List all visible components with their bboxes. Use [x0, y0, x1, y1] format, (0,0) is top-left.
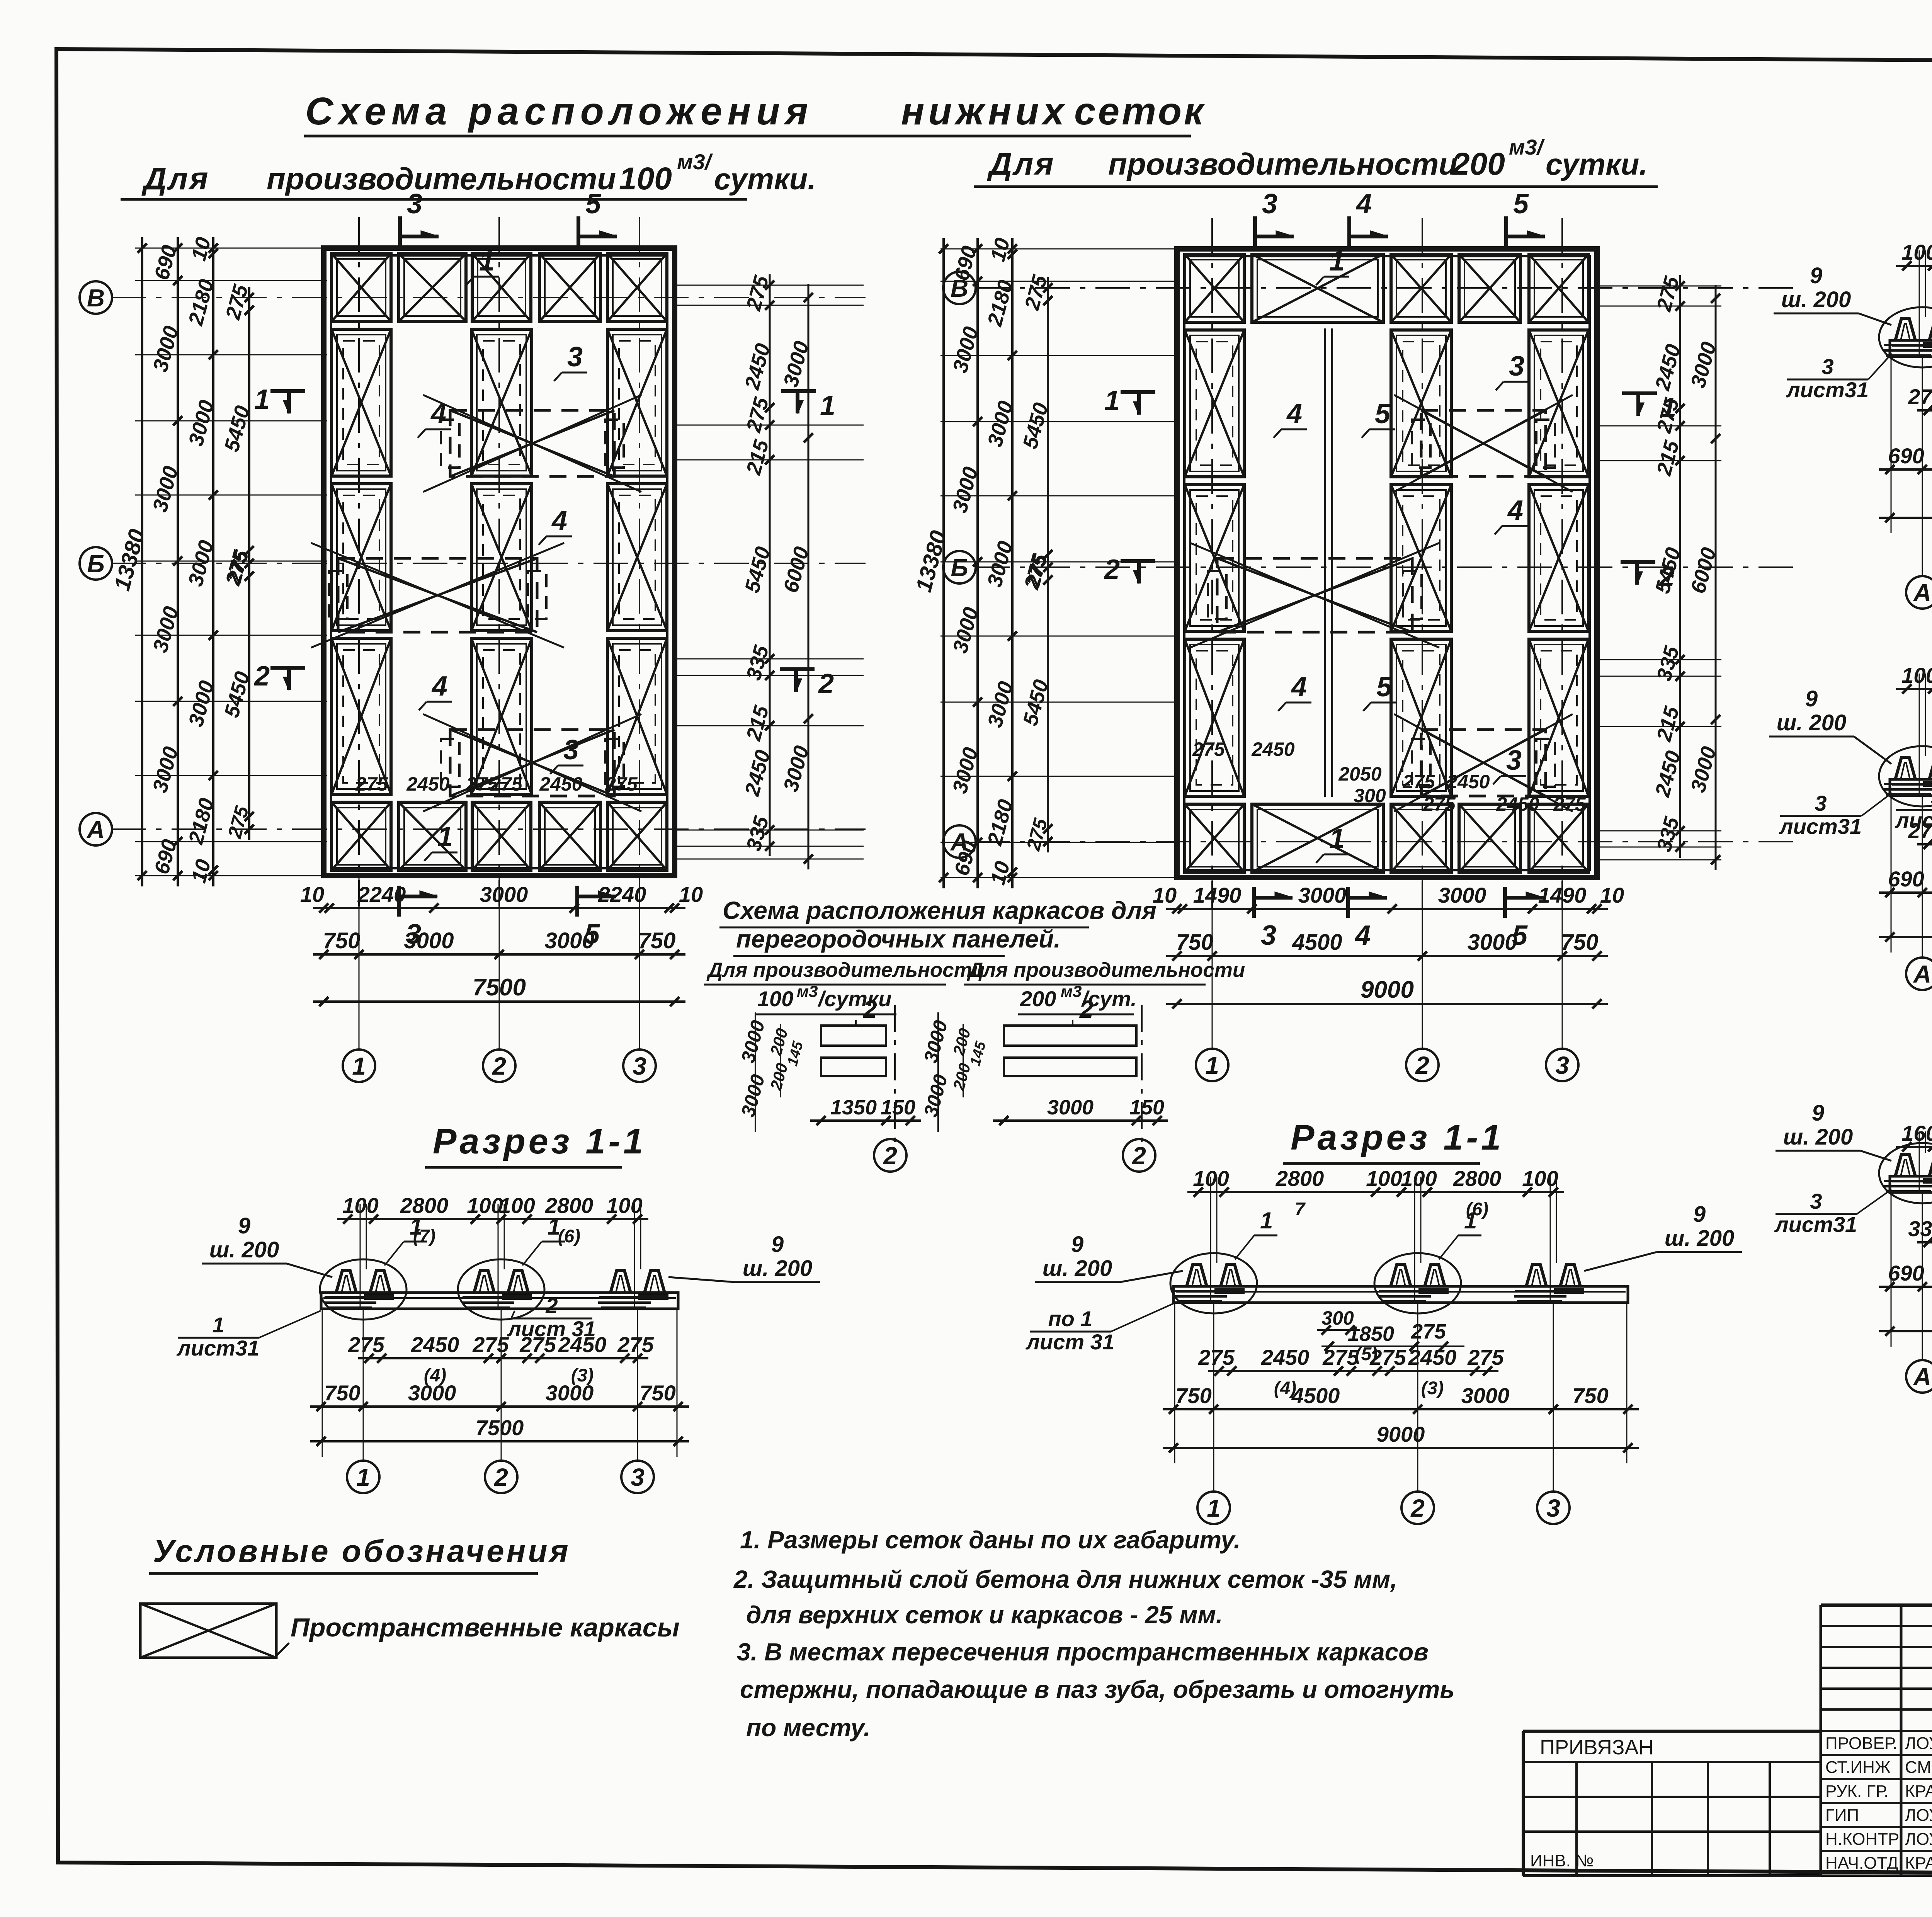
svg-text:10: 10 — [300, 882, 324, 907]
svg-text:100: 100 — [1901, 240, 1932, 264]
svg-text:А: А — [1913, 960, 1931, 988]
svg-text:1: 1 — [1329, 246, 1345, 277]
svg-text:2: 2 — [883, 1142, 897, 1170]
svg-text:9: 9 — [1805, 686, 1818, 711]
svg-text:производительности: производительности — [1108, 147, 1458, 181]
svg-text:2450: 2450 — [406, 773, 449, 795]
svg-text:Схема расположения: Схема расположения — [305, 90, 813, 133]
svg-text:7: 7 — [1295, 1199, 1306, 1220]
svg-text:3000: 3000 — [408, 1381, 456, 1405]
svg-text:4500: 4500 — [1291, 1383, 1340, 1408]
svg-text:275: 275 — [348, 1332, 384, 1357]
svg-text:1: 1 — [437, 822, 453, 852]
svg-text:1350: 1350 — [830, 1096, 877, 1119]
svg-text:ПРИВЯЗАН: ПРИВЯЗАН — [1540, 1736, 1654, 1759]
svg-text:лист31: лист31 — [1786, 378, 1869, 402]
svg-text:Для производительности: Для производительности — [967, 959, 1245, 981]
svg-text:1: 1 — [254, 384, 270, 415]
svg-text:1: 1 — [1464, 1208, 1477, 1233]
svg-text:160: 160 — [1901, 1121, 1932, 1145]
svg-text:4: 4 — [1355, 189, 1372, 219]
svg-text:275: 275 — [1402, 771, 1435, 793]
svg-text:3000: 3000 — [480, 882, 528, 907]
svg-text:1: 1 — [352, 1052, 366, 1080]
svg-text:лист31: лист31 — [176, 1336, 259, 1360]
svg-text:ш. 200: ш. 200 — [743, 1256, 813, 1281]
svg-text:1: 1 — [1260, 1208, 1273, 1233]
svg-text:4: 4 — [1354, 920, 1371, 951]
svg-text:ш. 200: ш. 200 — [1783, 1124, 1853, 1150]
svg-text:4: 4 — [430, 398, 446, 429]
svg-text:4500: 4500 — [1292, 930, 1342, 955]
svg-text:ПРОВЕР.: ПРОВЕР. — [1825, 1734, 1897, 1753]
svg-text:Пространственные каркасы: Пространственные каркасы — [291, 1613, 680, 1642]
svg-text:м3/: м3/ — [677, 150, 713, 174]
svg-text:100: 100 — [1901, 663, 1932, 687]
svg-text:9: 9 — [1812, 1101, 1824, 1126]
svg-text:100: 100 — [606, 1193, 642, 1218]
svg-text:1: 1 — [212, 1313, 224, 1337]
svg-text:275: 275 — [617, 1332, 654, 1357]
svg-text:4: 4 — [431, 671, 447, 702]
svg-text:5: 5 — [1376, 672, 1392, 703]
svg-text:А: А — [1913, 579, 1931, 607]
svg-text:СМИРНОВА: СМИРНОВА — [1905, 1758, 1932, 1777]
svg-text:3. В местах пересечения простр: 3. В местах пересечения пространственных… — [737, 1638, 1429, 1666]
svg-text:2450: 2450 — [1251, 738, 1294, 760]
svg-text:КРАСНОВА: КРАСНОВА — [1905, 1782, 1932, 1801]
svg-text:100: 100 — [757, 987, 793, 1011]
svg-text:А: А — [1913, 1363, 1931, 1391]
svg-text:150: 150 — [881, 1096, 915, 1119]
svg-text:3000: 3000 — [1438, 883, 1486, 907]
svg-text:4: 4 — [1507, 495, 1523, 526]
svg-text:лист31: лист31 — [1895, 808, 1932, 832]
svg-text:2: 2 — [1079, 995, 1094, 1023]
svg-text:2240: 2240 — [357, 882, 406, 907]
svg-text:2450: 2450 — [1496, 793, 1539, 815]
svg-text:275: 275 — [605, 773, 638, 795]
svg-text:9: 9 — [1071, 1232, 1083, 1257]
svg-text:/сутки: /сутки — [817, 987, 892, 1011]
svg-text:2: 2 — [253, 661, 270, 692]
svg-text:2: 2 — [545, 1293, 558, 1318]
svg-text:3: 3 — [633, 1052, 646, 1080]
svg-text:1. Размеры сеток даны по их га: 1. Размеры сеток даны по их габариту. — [740, 1526, 1241, 1554]
svg-text:335: 335 — [1908, 1216, 1932, 1241]
svg-text:Б: Б — [951, 554, 968, 582]
svg-text:ш. 200: ш. 200 — [1665, 1226, 1735, 1251]
svg-text:4: 4 — [1286, 398, 1302, 429]
svg-text:1: 1 — [1207, 1494, 1221, 1522]
svg-text:5: 5 — [1375, 398, 1391, 429]
svg-text:Условные обозначения: Условные обозначения — [153, 1534, 571, 1569]
svg-text:275: 275 — [1192, 738, 1225, 760]
svg-text:5: 5 — [1930, 785, 1932, 809]
svg-text:лист31: лист31 — [1774, 1212, 1857, 1237]
svg-text:3000: 3000 — [1467, 930, 1517, 955]
svg-text:275: 275 — [472, 1332, 509, 1357]
svg-text:2800: 2800 — [400, 1193, 449, 1218]
svg-text:нижних: нижних — [901, 90, 1068, 133]
svg-text:ЛОУЦКЕР: ЛОУЦКЕР — [1905, 1734, 1932, 1753]
svg-text:Разрез 1-1: Разрез 1-1 — [1291, 1118, 1504, 1157]
svg-text:Для: Для — [987, 146, 1055, 182]
svg-text:стержни, попадающие в паз зуба: стержни, попадающие в паз зуба, обрезать… — [740, 1675, 1454, 1703]
svg-text:100: 100 — [1366, 1166, 1402, 1191]
svg-text:по 1: по 1 — [1048, 1306, 1092, 1331]
svg-text:2450: 2450 — [539, 773, 582, 795]
svg-text:3000: 3000 — [404, 928, 454, 953]
svg-text:СТ.ИНЖ: СТ.ИНЖ — [1825, 1758, 1891, 1777]
svg-text:9: 9 — [1810, 263, 1822, 288]
svg-text:200: 200 — [1020, 987, 1056, 1011]
svg-text:2: 2 — [863, 995, 877, 1023]
svg-text:275: 275 — [490, 773, 523, 795]
svg-text:Разрез 1-1: Разрез 1-1 — [433, 1122, 646, 1161]
svg-text:3: 3 — [567, 342, 583, 373]
svg-text:м3/: м3/ — [1509, 135, 1545, 159]
svg-text:2: 2 — [494, 1463, 508, 1491]
svg-text:м3: м3 — [797, 982, 818, 1000]
svg-text:3: 3 — [1261, 920, 1276, 951]
svg-text:2: 2 — [492, 1052, 506, 1080]
svg-text:1: 1 — [548, 1214, 560, 1240]
svg-text:В: В — [87, 284, 105, 312]
svg-text:750: 750 — [323, 928, 361, 953]
svg-text:лист31: лист31 — [1779, 814, 1862, 839]
svg-text:ИНВ. №: ИНВ. № — [1530, 1851, 1594, 1870]
svg-text:3: 3 — [1509, 351, 1524, 382]
svg-text:4: 4 — [1291, 672, 1307, 703]
svg-text:2800: 2800 — [1276, 1166, 1324, 1191]
svg-text:2450: 2450 — [1446, 771, 1490, 793]
svg-text:1: 1 — [1205, 1051, 1219, 1079]
svg-text:2: 2 — [1104, 554, 1120, 585]
svg-text:750: 750 — [1175, 1383, 1211, 1408]
svg-text:2: 2 — [1415, 1051, 1429, 1079]
svg-text:275: 275 — [1908, 384, 1932, 409]
svg-text:5: 5 — [585, 189, 601, 219]
svg-text:275: 275 — [1411, 1320, 1446, 1343]
svg-text:Схема расположения каркасов дл: Схема расположения каркасов для — [723, 896, 1156, 924]
svg-text:4: 4 — [551, 505, 567, 536]
svg-text:275: 275 — [1423, 793, 1456, 815]
svg-text:3: 3 — [1506, 745, 1522, 776]
svg-text:2. Защитный слой бетона для ни: 2. Защитный слой бетона для нижних сеток… — [733, 1565, 1397, 1593]
svg-text:3000: 3000 — [546, 1381, 594, 1405]
svg-text:1: 1 — [356, 1463, 370, 1491]
svg-text:300: 300 — [1354, 785, 1386, 806]
svg-text:3: 3 — [1262, 189, 1277, 219]
svg-text:3: 3 — [1815, 791, 1827, 815]
svg-text:750: 750 — [638, 928, 676, 953]
svg-text:2450: 2450 — [1408, 1345, 1457, 1369]
svg-text:1: 1 — [1329, 823, 1345, 854]
svg-text:перегородочных панелей.: перегородочных панелей. — [736, 925, 1061, 953]
svg-text:сутки.: сутки. — [1546, 147, 1648, 181]
svg-text:2050: 2050 — [1338, 763, 1381, 785]
svg-text:(6): (6) — [558, 1226, 580, 1247]
svg-text:1: 1 — [479, 246, 495, 277]
svg-text:1: 1 — [1104, 385, 1120, 416]
svg-text:275: 275 — [355, 773, 388, 795]
svg-text:100: 100 — [1401, 1166, 1437, 1191]
svg-text:1: 1 — [820, 390, 835, 421]
svg-text:3: 3 — [1546, 1494, 1560, 1522]
svg-text:2800: 2800 — [1453, 1166, 1502, 1191]
svg-text:750: 750 — [1176, 930, 1214, 955]
svg-text:ЛОУЦКЕР: ЛОУЦКЕР — [1905, 1806, 1932, 1825]
svg-text:690: 690 — [1888, 1261, 1924, 1285]
svg-text:(3): (3) — [1421, 1378, 1444, 1398]
svg-text:750: 750 — [1572, 1383, 1608, 1408]
svg-text:5: 5 — [1513, 189, 1529, 219]
svg-text:сутки.: сутки. — [714, 162, 816, 196]
svg-text:9: 9 — [1693, 1202, 1706, 1227]
svg-text:9: 9 — [238, 1213, 250, 1238]
svg-text:275: 275 — [1198, 1345, 1235, 1369]
svg-text:750: 750 — [324, 1381, 360, 1405]
svg-text:3: 3 — [407, 189, 422, 219]
svg-text:2: 2 — [1132, 1142, 1146, 1170]
svg-text:3: 3 — [631, 1463, 645, 1491]
svg-text:100: 100 — [619, 161, 672, 196]
svg-text:9: 9 — [771, 1232, 784, 1257]
svg-text:НАЧ.ОТД: НАЧ.ОТД — [1825, 1854, 1898, 1873]
svg-text:по месту.: по месту. — [746, 1714, 871, 1742]
svg-text:ш. 200: ш. 200 — [1043, 1256, 1112, 1281]
svg-text:ГИП: ГИП — [1825, 1806, 1859, 1825]
svg-text:лист 31: лист 31 — [507, 1317, 596, 1341]
svg-text:690: 690 — [1888, 444, 1924, 468]
svg-text:ЛОУЦКЕР: ЛОУЦКЕР — [1905, 1830, 1932, 1849]
svg-text:1850: 1850 — [1348, 1322, 1394, 1345]
svg-text:275: 275 — [1553, 793, 1586, 815]
svg-text:10: 10 — [1600, 883, 1624, 907]
svg-text:690: 690 — [1888, 867, 1924, 891]
svg-text:сеток: сеток — [1074, 90, 1206, 133]
svg-text:1490: 1490 — [1193, 883, 1242, 907]
svg-text:А: А — [86, 816, 105, 844]
svg-text:РУК. ГР.: РУК. ГР. — [1825, 1782, 1889, 1801]
svg-text:3000: 3000 — [1298, 883, 1347, 907]
svg-text:3: 3 — [1555, 1051, 1569, 1079]
svg-text:275: 275 — [1467, 1345, 1504, 1369]
svg-text:200: 200 — [1451, 146, 1505, 182]
svg-text:3: 3 — [1810, 1189, 1822, 1213]
svg-text:3000: 3000 — [1461, 1383, 1510, 1408]
svg-text:ш. 200: ш. 200 — [1781, 287, 1851, 312]
svg-text:100: 100 — [1522, 1166, 1558, 1191]
svg-text:производительности: производительности — [267, 162, 616, 196]
svg-text:Н.КОНТР: Н.КОНТР — [1825, 1830, 1899, 1849]
svg-text:1: 1 — [410, 1214, 422, 1240]
svg-text:7500: 7500 — [476, 1415, 524, 1440]
svg-text:2240: 2240 — [598, 882, 646, 907]
svg-text:3: 3 — [1821, 354, 1833, 379]
svg-text:150: 150 — [1129, 1096, 1164, 1119]
svg-text:9000: 9000 — [1361, 976, 1414, 1003]
svg-text:750: 750 — [1561, 930, 1599, 955]
svg-text:Для производительности: Для производительности — [706, 959, 985, 981]
svg-text:лист 31: лист 31 — [1025, 1330, 1114, 1354]
svg-text:3000: 3000 — [1047, 1096, 1094, 1119]
svg-text:Для: Для — [141, 161, 210, 196]
svg-text:Б: Б — [87, 550, 104, 578]
svg-text:3000: 3000 — [544, 928, 594, 953]
svg-text:2450: 2450 — [1261, 1345, 1310, 1369]
svg-text:ш. 200: ш. 200 — [209, 1237, 279, 1262]
svg-text:ш. 200: ш. 200 — [1777, 710, 1847, 735]
svg-text:2450: 2450 — [411, 1332, 459, 1357]
svg-text:для верхних сеток и каркасов -: для верхних сеток и каркасов - 25 мм. — [746, 1601, 1223, 1629]
svg-text:КРАСАВИН: КРАСАВИН — [1905, 1854, 1932, 1873]
svg-text:м3: м3 — [1061, 982, 1082, 1000]
svg-text:750: 750 — [639, 1381, 675, 1405]
svg-text:3: 3 — [563, 735, 579, 765]
svg-text:2: 2 — [818, 668, 834, 699]
svg-text:2: 2 — [1410, 1494, 1425, 1522]
svg-text:10: 10 — [679, 882, 703, 907]
